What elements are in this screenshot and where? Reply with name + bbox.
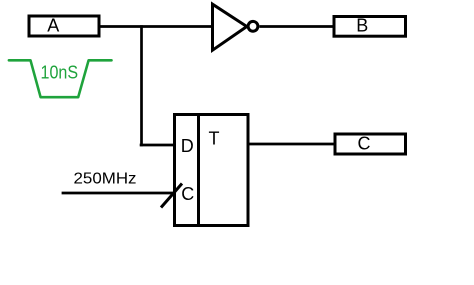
wire inverter output to B xyxy=(260,25,334,28)
svg-text:D: D xyxy=(181,136,194,156)
inverter U1 bubble xyxy=(248,21,258,31)
flip-flop U2 body xyxy=(175,113,249,227)
clock wire xyxy=(62,192,174,195)
svg-text:250MHz: 250MHz xyxy=(74,171,137,188)
svg-text:10nS: 10nS xyxy=(41,63,79,83)
svg-text:T: T xyxy=(209,129,220,149)
pulse waveform 10nS xyxy=(9,60,112,97)
svg-text:C: C xyxy=(358,133,371,153)
inverter U1 triangle xyxy=(213,4,247,50)
wire branch to D input xyxy=(140,144,174,147)
svg-text:B: B xyxy=(356,16,368,36)
svg-text:C: C xyxy=(181,184,194,204)
svg-text:A: A xyxy=(47,16,59,36)
wire junction branch down xyxy=(140,25,143,146)
node C xyxy=(335,133,406,154)
wire A to inverter input xyxy=(100,25,213,28)
wire flip-flop output to C xyxy=(248,143,334,146)
clock edge slash xyxy=(161,184,182,208)
node B xyxy=(334,16,406,37)
node A xyxy=(29,16,99,36)
